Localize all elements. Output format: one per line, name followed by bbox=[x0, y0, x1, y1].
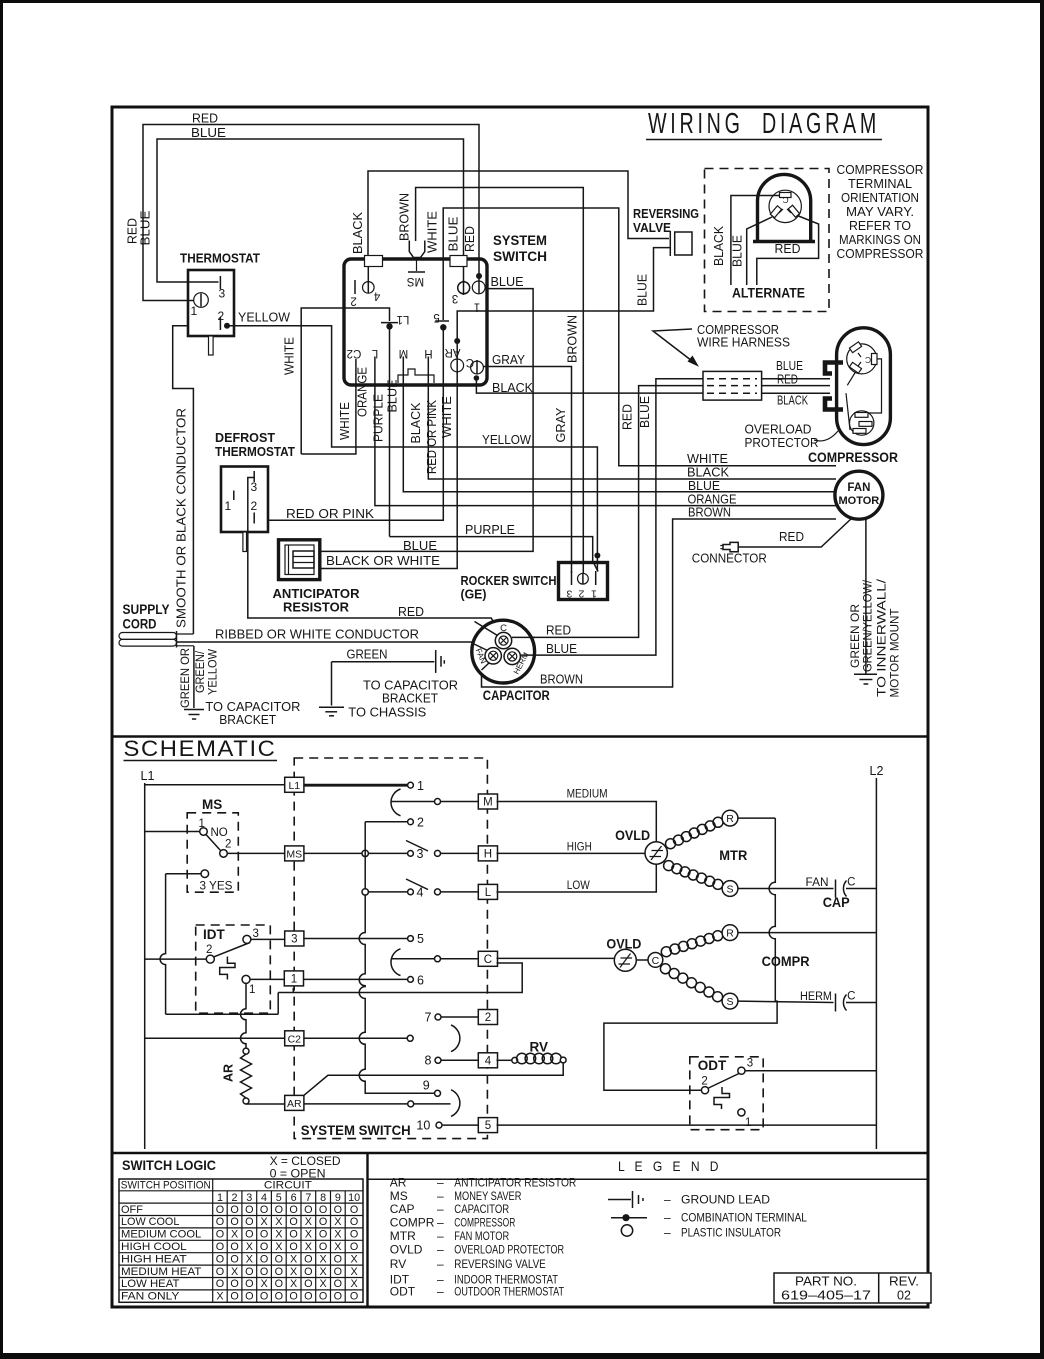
svg-text:02: 02 bbox=[897, 1289, 911, 1303]
svg-text:O: O bbox=[216, 1266, 224, 1278]
wire C to compressor overload bbox=[497, 957, 615, 959]
svg-text:X: X bbox=[334, 1216, 341, 1228]
svg-text:RED: RED bbox=[126, 218, 140, 244]
wire L1 to contact 1 (thick) bbox=[304, 784, 408, 787]
svg-text:RED: RED bbox=[777, 373, 798, 387]
svg-text:RED: RED bbox=[192, 112, 218, 126]
svg-text:X: X bbox=[231, 1266, 238, 1278]
ODT contact 1 bbox=[738, 1109, 752, 1129]
svg-text:HIGH COOL: HIGH COOL bbox=[121, 1241, 187, 1253]
junction dot below terminal C bbox=[474, 375, 480, 381]
wire MS contact 3 down to IDT net bbox=[160, 874, 278, 1015]
wire PURPLE (thick) from L1 to rocker switch pin 1 bbox=[372, 326, 599, 571]
ODT contact 3 bbox=[738, 1058, 877, 1075]
svg-text:5: 5 bbox=[485, 1120, 491, 1132]
svg-text:CAPACITOR: CAPACITOR bbox=[454, 1202, 509, 1216]
svg-text:MONEY SAVER: MONEY SAVER bbox=[454, 1189, 521, 1203]
resistor AR zigzag bbox=[241, 1054, 252, 1098]
wire WHITE from system switch C2 bbox=[301, 374, 356, 454]
wire ORANGE from pin L to fan motor bbox=[356, 367, 837, 507]
svg-text:X: X bbox=[275, 1216, 282, 1228]
svg-text:O: O bbox=[260, 1266, 268, 1278]
svg-text:COMPR: COMPR bbox=[390, 1216, 435, 1230]
svg-text:7: 7 bbox=[305, 1192, 311, 1204]
wire bus to contact 4 bbox=[368, 891, 407, 893]
system switch terminal 5 bbox=[433, 311, 449, 323]
svg-text:X: X bbox=[216, 1291, 223, 1303]
wire BLACK from system switch terminal 4 to reversing valve bbox=[351, 171, 669, 261]
svg-text:O: O bbox=[245, 1266, 253, 1278]
terminal 1 (schematic) stub bbox=[292, 988, 294, 993]
svg-text:BLACK: BLACK bbox=[492, 381, 534, 395]
svg-text:1: 1 bbox=[191, 304, 198, 318]
svg-text:LOW COOL: LOW COOL bbox=[121, 1216, 179, 1228]
svg-text:O: O bbox=[230, 1253, 238, 1265]
arc contacts 5-6 bbox=[391, 949, 401, 976]
svg-text:C: C bbox=[652, 955, 660, 967]
svg-text:SUPPLY: SUPPLY bbox=[123, 602, 170, 617]
svg-text:MAY VARY.: MAY VARY. bbox=[846, 205, 914, 219]
svg-text:AR: AR bbox=[287, 1098, 302, 1110]
terminal L bbox=[478, 884, 497, 899]
svg-text:WHITE: WHITE bbox=[687, 452, 728, 466]
svg-text:BLUE: BLUE bbox=[139, 211, 153, 246]
svg-text:C: C bbox=[847, 991, 855, 1003]
system switch pin L bbox=[371, 347, 378, 372]
svg-text:3: 3 bbox=[452, 292, 458, 304]
svg-text:X: X bbox=[290, 1278, 297, 1290]
svg-text:LOW: LOW bbox=[567, 880, 590, 892]
svg-text:3: 3 bbox=[219, 287, 226, 301]
terminal MS (schematic) bbox=[285, 846, 304, 861]
svg-text:619–405–17: 619–405–17 bbox=[781, 1289, 871, 1303]
svg-text:X: X bbox=[290, 1253, 297, 1265]
system switch terminal AR bbox=[445, 341, 464, 374]
wire L1 feed to system switch terminal L1 bbox=[283, 308, 390, 454]
compressor bracket bbox=[825, 363, 843, 410]
system switch pin M bbox=[399, 347, 409, 372]
svg-text:6: 6 bbox=[291, 1192, 297, 1204]
svg-text:SWITCH: SWITCH bbox=[493, 249, 547, 264]
svg-text:X: X bbox=[260, 1278, 267, 1290]
svg-text:L: L bbox=[485, 887, 492, 899]
thermostat bbox=[180, 251, 260, 356]
IDT thermal element bbox=[220, 957, 235, 980]
svg-text:O: O bbox=[245, 1229, 253, 1241]
L2 rail bbox=[875, 778, 877, 1149]
svg-text:MTR: MTR bbox=[719, 848, 747, 863]
wire S row to FAN capacitor and L2 bbox=[738, 877, 876, 898]
svg-text:O: O bbox=[260, 1291, 268, 1303]
svg-text:O: O bbox=[319, 1216, 327, 1228]
svg-text:GROUND LEAD: GROUND LEAD bbox=[681, 1193, 770, 1207]
svg-text:O: O bbox=[334, 1291, 342, 1303]
svg-text:FAN MOTOR: FAN MOTOR bbox=[454, 1229, 509, 1243]
system switch pin C2 bbox=[347, 347, 362, 375]
svg-text:L E G E N D: L E G E N D bbox=[618, 1158, 722, 1174]
wire RED capacitor C to harness bbox=[512, 386, 703, 638]
svg-text:MS: MS bbox=[202, 797, 222, 812]
compressor internal wires bbox=[846, 359, 882, 430]
svg-text:BROWN: BROWN bbox=[566, 315, 580, 363]
svg-text:AR: AR bbox=[222, 1064, 236, 1082]
rocker switch (GE) bbox=[461, 563, 608, 602]
wire terminal 5 right bbox=[497, 1124, 877, 1126]
svg-text:C: C bbox=[500, 623, 507, 634]
alternate wire BLACK bbox=[712, 196, 780, 286]
svg-text:CAP: CAP bbox=[823, 895, 850, 910]
svg-text:O: O bbox=[304, 1253, 312, 1265]
svg-text:10: 10 bbox=[348, 1192, 360, 1204]
movable contact 9-10 bbox=[408, 1101, 414, 1107]
svg-text:HIGH HEAT: HIGH HEAT bbox=[121, 1253, 187, 1265]
svg-text:RED: RED bbox=[775, 242, 801, 256]
outdoor thermostat ODT dashed box bbox=[690, 1057, 763, 1130]
svg-text:4: 4 bbox=[485, 1055, 492, 1067]
IDT contact 2 bbox=[206, 944, 214, 963]
svg-text:RED OR PINK: RED OR PINK bbox=[286, 507, 375, 521]
svg-text:O: O bbox=[245, 1216, 253, 1228]
svg-text:O: O bbox=[230, 1291, 238, 1303]
ODT contact 2 bbox=[701, 1076, 708, 1094]
svg-text:PURPLE: PURPLE bbox=[372, 394, 386, 442]
svg-text:O: O bbox=[319, 1229, 327, 1241]
svg-text:O: O bbox=[304, 1204, 312, 1216]
L1 rail bbox=[144, 783, 146, 1149]
svg-text:1: 1 bbox=[225, 499, 232, 513]
svg-text:H: H bbox=[484, 849, 492, 861]
contact 4 right bbox=[435, 889, 479, 895]
svg-text:X: X bbox=[350, 1278, 357, 1290]
compressor winding S bbox=[660, 964, 737, 1009]
svg-text:O: O bbox=[230, 1216, 238, 1228]
wire WHITE from system switch terminal 5 to fan motor bbox=[426, 208, 837, 466]
svg-text:O: O bbox=[275, 1253, 283, 1265]
svg-text:3: 3 bbox=[246, 1192, 252, 1204]
svg-text:7: 7 bbox=[425, 1011, 432, 1025]
junction dot at terminal 5 bbox=[440, 324, 446, 330]
svg-text:O: O bbox=[216, 1229, 224, 1241]
switch logic table bbox=[119, 1179, 363, 1303]
contact 7 bbox=[425, 1011, 479, 1025]
svg-text:L1: L1 bbox=[397, 313, 410, 325]
svg-text:FAN ONLY: FAN ONLY bbox=[121, 1291, 179, 1303]
svg-text:O: O bbox=[216, 1204, 224, 1216]
svg-text:X: X bbox=[246, 1253, 253, 1265]
svg-text:O: O bbox=[245, 1291, 253, 1303]
svg-text:3 YES: 3 YES bbox=[200, 881, 233, 893]
svg-text:O: O bbox=[334, 1253, 342, 1265]
svg-text:(GE): (GE) bbox=[461, 587, 487, 602]
wire LOW from L to fan motor overload bbox=[497, 865, 657, 893]
wire BLACK from pin H to fan motor bbox=[409, 372, 836, 480]
contact 3 right bbox=[435, 850, 479, 856]
svg-text:X: X bbox=[350, 1266, 357, 1278]
blade row 3 bbox=[406, 841, 428, 852]
svg-text:O: O bbox=[350, 1216, 358, 1228]
svg-text:O: O bbox=[334, 1204, 342, 1216]
svg-text:BRACKET: BRACKET bbox=[382, 692, 438, 706]
svg-text:ODT: ODT bbox=[698, 1058, 727, 1073]
section divider vertical bbox=[366, 1153, 368, 1307]
svg-text:WHITE: WHITE bbox=[426, 211, 440, 253]
svg-text:BLUE: BLUE bbox=[636, 274, 650, 306]
svg-text:HIGH: HIGH bbox=[567, 842, 592, 854]
svg-text:4: 4 bbox=[373, 290, 380, 302]
contact 5 bbox=[408, 932, 424, 946]
compressor overload terminal circle bbox=[850, 411, 874, 435]
AR resistor top circle bbox=[243, 1048, 249, 1054]
svg-text:MEDIUM HEAT: MEDIUM HEAT bbox=[121, 1266, 202, 1278]
svg-text:O: O bbox=[275, 1291, 283, 1303]
contact 1 bbox=[408, 779, 424, 793]
svg-text:1: 1 bbox=[249, 984, 255, 996]
svg-text:–: – bbox=[437, 1229, 444, 1243]
svg-text:8: 8 bbox=[320, 1192, 326, 1204]
svg-text:O: O bbox=[275, 1278, 283, 1290]
svg-text:O: O bbox=[289, 1204, 297, 1216]
wire BROWN from system switch MS to rocker switch pin 2 bbox=[398, 188, 584, 574]
system switch terminal L1 bbox=[381, 313, 409, 325]
svg-text:1: 1 bbox=[745, 1117, 751, 1129]
AR resistor bottom circle bbox=[243, 1098, 249, 1104]
svg-text:2: 2 bbox=[350, 295, 356, 307]
wire MS terminal to contact 3 bbox=[304, 852, 408, 854]
svg-text:BLUE: BLUE bbox=[638, 396, 652, 428]
svg-text:OUTDOOR THERMOSTAT: OUTDOOR THERMOSTAT bbox=[454, 1285, 564, 1299]
svg-text:3: 3 bbox=[291, 934, 297, 946]
svg-text:NO: NO bbox=[211, 827, 228, 839]
svg-text:WIRING DIAGRAM: WIRING DIAGRAM bbox=[648, 108, 880, 140]
svg-text:AR: AR bbox=[445, 346, 461, 358]
harness to compressor wires BLUE RED BLACK bbox=[762, 359, 830, 408]
wire BLACK from terminal C to compressor harness bbox=[476, 378, 703, 395]
svg-text:–: – bbox=[437, 1189, 444, 1203]
terminal 1 (schematic) bbox=[284, 971, 303, 986]
svg-text:O: O bbox=[350, 1229, 358, 1241]
svg-text:BLACK: BLACK bbox=[712, 225, 726, 266]
svg-text:C: C bbox=[847, 877, 855, 889]
svg-text:X: X bbox=[275, 1241, 282, 1253]
svg-text:2: 2 bbox=[232, 1192, 238, 1204]
svg-text:C: C bbox=[466, 356, 474, 368]
svg-text:X: X bbox=[334, 1241, 341, 1253]
alternate wire BLUE bbox=[731, 217, 773, 285]
svg-text:X: X bbox=[290, 1266, 297, 1278]
C row wire and contact bbox=[391, 956, 478, 962]
svg-text:OVLD: OVLD bbox=[390, 1243, 423, 1257]
junction dot thermostat terminal 2 bbox=[224, 323, 230, 329]
svg-text:O: O bbox=[275, 1266, 283, 1278]
svg-text:X: X bbox=[260, 1216, 267, 1228]
arc contacts 1-2 bbox=[391, 789, 401, 816]
svg-text:GRAY: GRAY bbox=[492, 353, 526, 367]
svg-text:MEDIUM: MEDIUM bbox=[567, 789, 608, 801]
svg-text:IDT: IDT bbox=[203, 927, 226, 942]
svg-text:MEDIUM COOL: MEDIUM COOL bbox=[121, 1229, 201, 1241]
ODT blade bbox=[709, 1074, 740, 1089]
wire L1 rail to IDT contact 2 bbox=[145, 958, 206, 960]
fan motor bbox=[835, 471, 883, 519]
svg-text:X: X bbox=[231, 1229, 238, 1241]
wire terminal 3 to contact 5 bbox=[304, 938, 408, 940]
wire IDT contact 1 down to AR resistor with hops bbox=[241, 983, 246, 1048]
svg-text:MS: MS bbox=[407, 275, 425, 287]
svg-text:REVERSING: REVERSING bbox=[633, 206, 699, 221]
svg-text:O: O bbox=[275, 1204, 283, 1216]
compressor terminal C circle bbox=[636, 953, 663, 968]
svg-text:ORIENTATION: ORIENTATION bbox=[841, 191, 919, 205]
svg-text:COMPRESSOR: COMPRESSOR bbox=[808, 450, 898, 465]
svg-text:VALVE: VALVE bbox=[633, 220, 671, 235]
terminal H bbox=[478, 846, 497, 861]
svg-text:O: O bbox=[334, 1266, 342, 1278]
capacitor bbox=[472, 620, 550, 703]
svg-text:3: 3 bbox=[251, 480, 258, 494]
svg-text:TERMINAL: TERMINAL bbox=[848, 177, 912, 191]
wire AR resistor to AR terminal bbox=[246, 1103, 285, 1105]
wire GREEN to capacitor bracket ground lead bbox=[319, 648, 434, 720]
svg-text:O: O bbox=[304, 1278, 312, 1290]
svg-text:O: O bbox=[216, 1216, 224, 1228]
svg-text:–: – bbox=[437, 1202, 444, 1216]
compressor winding R bbox=[661, 925, 738, 957]
svg-text:HERM: HERM bbox=[800, 991, 832, 1003]
svg-text:C: C bbox=[782, 195, 788, 205]
svg-text:O: O bbox=[319, 1204, 327, 1216]
svg-text:SWITCH POSITION: SWITCH POSITION bbox=[121, 1179, 211, 1191]
system switch SW1 bbox=[344, 233, 547, 385]
svg-text:GREEN/: GREEN/ bbox=[195, 650, 207, 693]
movable contact 7-8 bbox=[407, 1035, 413, 1041]
svg-text:1: 1 bbox=[199, 818, 205, 830]
wire terminal 1 to contact 6 bbox=[304, 978, 408, 980]
svg-text:1: 1 bbox=[217, 1192, 223, 1204]
svg-text:2: 2 bbox=[225, 839, 231, 851]
svg-text:M: M bbox=[483, 797, 493, 809]
legend ground lead symbol bbox=[608, 1191, 770, 1208]
svg-text:GREEN: GREEN bbox=[347, 648, 388, 662]
svg-text:CAPACITOR: CAPACITOR bbox=[483, 688, 550, 703]
alternate compressor terminal box (dashed) bbox=[705, 169, 830, 312]
svg-text:BLACK OR WHITE: BLACK OR WHITE bbox=[326, 554, 440, 568]
svg-text:O: O bbox=[230, 1241, 238, 1253]
svg-text:–: – bbox=[664, 1226, 671, 1240]
fan motor ground lead bbox=[850, 519, 902, 698]
IDT blade bbox=[214, 943, 250, 957]
svg-text:O: O bbox=[304, 1291, 312, 1303]
svg-text:TO CHASSIS: TO CHASSIS bbox=[348, 706, 426, 720]
wire compressor S to ODT contact 2 bbox=[604, 1001, 777, 1090]
svg-text:BLUE: BLUE bbox=[491, 275, 524, 289]
wire from terminal AR to reversing valve (BLUE) bbox=[457, 248, 670, 341]
svg-text:2: 2 bbox=[417, 816, 424, 830]
wire BROWN from capacitor FAN to fan motor bbox=[482, 506, 837, 688]
svg-text:PART NO.: PART NO. bbox=[795, 1275, 857, 1289]
svg-text:BROWN: BROWN bbox=[540, 673, 583, 687]
anticipator resistor AR bbox=[273, 540, 361, 615]
svg-text:BLUE: BLUE bbox=[731, 235, 745, 267]
wire contact 2 to bus bbox=[365, 821, 407, 823]
svg-text:AR: AR bbox=[390, 1176, 407, 1190]
bus junction circle row 4 bbox=[362, 889, 368, 895]
svg-text:X: X bbox=[350, 1253, 357, 1265]
svg-text:ALTERNATE: ALTERNATE bbox=[732, 286, 805, 301]
system switch dashed box (schematic) bbox=[294, 758, 487, 1139]
wire RED from thermostat terminal 1 to system switch terminal 1 bbox=[126, 112, 480, 301]
svg-text:YELLOW: YELLOW bbox=[208, 649, 220, 695]
svg-text:M: M bbox=[399, 347, 409, 359]
arc contacts 9-10 bbox=[451, 1090, 460, 1117]
contact 6 bbox=[408, 974, 424, 988]
svg-text:MS: MS bbox=[286, 849, 302, 861]
svg-text:C2: C2 bbox=[288, 1033, 302, 1045]
terminal M bbox=[478, 794, 497, 809]
svg-text:OVLD: OVLD bbox=[615, 828, 650, 843]
system switch terminal 1 bbox=[472, 278, 485, 313]
IDT contact 1 bbox=[242, 975, 284, 996]
svg-text:REV.: REV. bbox=[889, 1275, 919, 1289]
svg-text:–: – bbox=[437, 1243, 444, 1257]
system switch MS plug bbox=[407, 241, 425, 288]
svg-text:O: O bbox=[260, 1241, 268, 1253]
contact 3 bbox=[408, 847, 424, 861]
wire AR terminal to movable contact 9-10 bbox=[304, 1103, 451, 1105]
svg-text:O: O bbox=[289, 1241, 297, 1253]
svg-text:CORD: CORD bbox=[123, 617, 157, 632]
svg-text:O: O bbox=[350, 1204, 358, 1216]
wire MEDIUM from M to fan motor overload bbox=[497, 789, 657, 843]
svg-text:X: X bbox=[305, 1229, 312, 1241]
defrost thermostat bbox=[215, 430, 295, 552]
system switch top tab left bbox=[365, 256, 383, 267]
wire C2 to movable contact 7-8 bbox=[304, 1037, 407, 1039]
contact 2 bbox=[408, 816, 424, 830]
wire green/yellow to capacitor bracket ground bbox=[180, 646, 300, 727]
legend abbreviation list bbox=[390, 1176, 577, 1299]
note compressor terminal orientation bbox=[837, 163, 924, 261]
svg-text:9: 9 bbox=[423, 1079, 430, 1093]
label LEGEND bbox=[368, 1158, 929, 1179]
alternate wire RED bbox=[757, 216, 819, 285]
system switch terminal 3 bbox=[452, 280, 470, 304]
svg-text:GREEN OR: GREEN OR bbox=[850, 604, 862, 668]
svg-text:ORANGE: ORANGE bbox=[688, 493, 737, 507]
svg-text:REFER TO: REFER TO bbox=[849, 219, 911, 233]
svg-text:CIRCUIT: CIRCUIT bbox=[264, 1179, 312, 1191]
svg-text:10: 10 bbox=[416, 1119, 430, 1133]
svg-text:RED: RED bbox=[546, 624, 571, 638]
svg-text:X: X bbox=[319, 1253, 326, 1265]
system switch terminal C bbox=[466, 356, 484, 375]
svg-text:BLUE: BLUE bbox=[688, 479, 720, 493]
contact 9 bbox=[423, 1079, 441, 1097]
svg-text:DEFROST: DEFROST bbox=[215, 430, 275, 445]
svg-text:BLUE: BLUE bbox=[403, 539, 437, 553]
svg-text:COMPRESSOR: COMPRESSOR bbox=[454, 1216, 515, 1230]
system switch pin H bbox=[424, 347, 432, 372]
svg-text:OVERLOAD: OVERLOAD bbox=[745, 423, 812, 437]
svg-text:PROTECTOR: PROTECTOR bbox=[745, 436, 819, 450]
money saver MS dashed box bbox=[187, 797, 238, 892]
svg-text:RED: RED bbox=[463, 226, 477, 252]
terminal 3 (schematic) bbox=[285, 931, 304, 946]
svg-text:THERMOSTAT: THERMOSTAT bbox=[215, 444, 295, 459]
terminal L1 (schematic) bbox=[285, 777, 304, 792]
svg-text:CAP: CAP bbox=[390, 1202, 415, 1216]
svg-text:MOTOR MOUNT: MOTOR MOUNT bbox=[890, 609, 902, 698]
MS switch blade bbox=[206, 835, 220, 851]
